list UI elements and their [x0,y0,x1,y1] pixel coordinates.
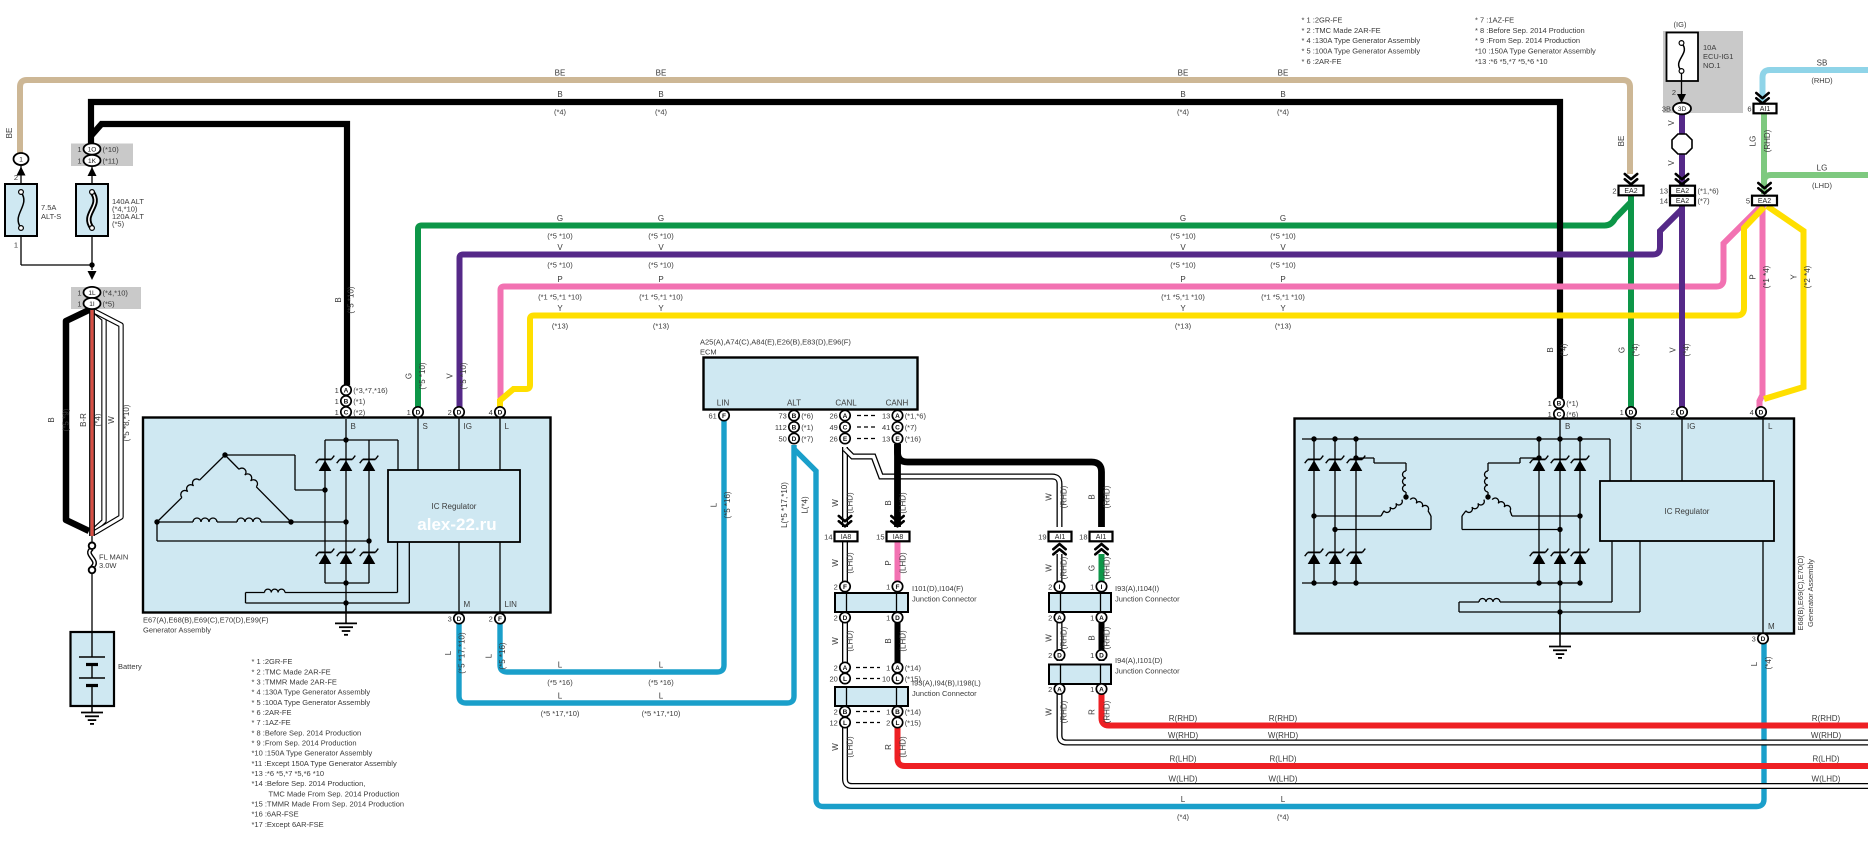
svg-text:LIN: LIN [717,399,730,408]
svg-text:I94(A),I101(D): I94(A),I101(D) [1115,656,1163,665]
svg-text:6: 6 [1747,104,1751,113]
right generator B column [1559,419,1561,634]
svg-text:(*4): (*4) [1560,343,1569,356]
svg-text:(*4): (*4) [1277,108,1290,117]
svg-text:L: L [710,502,719,507]
wire B-R red-black [89,308,95,536]
svg-text:Y: Y [1180,304,1186,313]
svg-text:3D: 3D [1678,106,1687,113]
svg-text:(*5 *10): (*5 *10) [648,261,674,270]
svg-text:1: 1 [1090,613,1094,622]
right generator diode columns [1313,439,1315,583]
svg-text:Junction Connector: Junction Connector [1115,595,1180,604]
svg-text:BE: BE [656,69,667,78]
svg-text:V: V [1180,243,1186,252]
svg-text:W: W [1045,493,1054,501]
svg-text:(*5 *10): (*5 *10) [1170,232,1196,241]
svg-text:Y: Y [1790,274,1799,280]
svg-text:D: D [498,409,503,416]
svg-text:Generator Assembly: Generator Assembly [143,626,211,635]
svg-text:2: 2 [489,614,493,623]
right generator diodes [1308,460,1321,471]
svg-text:(*16): (*16) [905,434,922,443]
svg-text:(*4,*10): (*4,*10) [103,288,129,297]
svg-text:5: 5 [1746,196,1750,205]
svg-text:(*5 *10): (*5 *10) [459,362,468,389]
svg-text:EA2: EA2 [1676,188,1689,195]
svg-text:12: 12 [829,718,837,727]
svg-text:1: 1 [1620,408,1624,417]
svg-text:2: 2 [1048,582,1052,591]
svg-text:BE: BE [1178,69,1189,78]
svg-text:D: D [416,409,421,416]
svg-text:1O: 1O [88,146,97,153]
svg-text:2: 2 [886,718,890,727]
svg-text:1: 1 [886,707,890,716]
svg-text:2: 2 [834,613,838,622]
svg-text:(*6): (*6) [1566,410,1579,419]
svg-text:1: 1 [407,408,411,417]
fuse F2 element [89,192,95,228]
battery ground [91,706,93,713]
right generator pin stubs [1630,417,1632,481]
svg-text:B: B [351,422,356,431]
svg-text:4: 4 [489,408,493,417]
wire P pink LHD IA8 to junction [895,542,901,582]
wire R red LHD [898,715,1868,766]
svg-text:26: 26 [829,434,837,443]
right generator field coil [1459,601,1479,603]
svg-text:B: B [1088,494,1097,499]
svg-text:W(RHD): W(RHD) [1811,731,1842,740]
gray strip connector 1L/1I [71,287,141,309]
svg-text:F: F [722,413,726,420]
svg-text:L: L [896,720,900,727]
svg-text:W: W [1045,708,1054,716]
svg-text:(*1 *5,*1 *10): (*1 *5,*1 *10) [1161,293,1205,302]
right generator star winding right [1485,494,1490,499]
svg-text:(RHD): (RHD) [1763,129,1772,152]
svg-text:(*5): (*5) [112,220,125,229]
svg-text:D: D [1759,409,1764,416]
svg-text:(*4): (*4) [94,413,103,426]
wire black bow left bundle [66,309,91,531]
svg-text:S: S [423,422,428,431]
svg-text:(*4): (*4) [1631,343,1640,356]
svg-text:2: 2 [448,408,452,417]
svg-text:(*5 *17,*10): (*5 *17,*10) [458,632,467,674]
svg-text:(*5 *16): (*5 *16) [547,678,573,687]
gray strip connector 1O/1K [71,144,133,167]
svg-text:B: B [792,413,797,420]
svg-text:P: P [557,275,562,284]
battery symbol [91,632,93,657]
svg-text:R(RHD): R(RHD) [1812,714,1841,723]
wire L cyan M-ALT [459,445,794,703]
svg-text:(*5 *10): (*5 *10) [648,232,674,241]
svg-text:*15 :TMMR Made From Sep. 2014: *15 :TMMR Made From Sep. 2014 Production [252,799,405,808]
svg-text:* 9 :From Sep. 2014 Production: * 9 :From Sep. 2014 Production [252,738,357,747]
svg-text:R(LHD): R(LHD) [1169,755,1196,764]
generator assembly left box [143,418,551,613]
svg-text:IC Regulator: IC Regulator [1665,507,1710,516]
svg-text:(*1,*6): (*1,*6) [905,411,927,420]
svg-text:112: 112 [775,423,787,432]
svg-text:B: B [1280,90,1285,99]
svg-text:13: 13 [1660,186,1668,195]
svg-text:(*11): (*11) [103,156,119,165]
svg-text:R(LHD): R(LHD) [1812,755,1839,764]
svg-text:L: L [843,676,847,683]
svg-text:(*5 *10): (*5 *10) [547,261,573,270]
svg-text:IA8: IA8 [893,534,904,541]
svg-text:(*3,*7,*16): (*3,*7,*16) [353,386,388,395]
svg-text:26: 26 [829,411,837,420]
svg-text:* 5 :100A Type Generator Assem: * 5 :100A Type Generator Assembly [1302,47,1421,56]
svg-text:(RHD): (RHD) [1060,626,1069,649]
svg-text:2: 2 [1672,88,1676,97]
svg-text:(*5 *10): (*5 *10) [418,362,427,389]
svg-text:1: 1 [77,156,81,165]
fuse output arrow ECU-IG1 [1677,94,1686,103]
svg-text:W: W [1045,634,1054,642]
svg-text:E: E [843,436,848,443]
svg-text:(*5 *10): (*5 *10) [547,232,573,241]
svg-text:I93(A),I104(I): I93(A),I104(I) [1115,584,1160,593]
svg-text:B: B [792,424,797,431]
junction connector box I101(D),I104(F) [835,593,908,612]
svg-text:1: 1 [77,299,81,308]
wire W white columns right [1057,554,1063,582]
connector 2 EA2 [1625,174,1637,179]
svg-text:W(RHD): W(RHD) [1268,731,1299,740]
svg-text:*13 :*6 *5,*7 *5,*6 *10: *13 :*6 *5,*7 *5,*6 *10 [1475,57,1548,66]
ECM CAN dashed links [857,415,877,417]
svg-text:(*4): (*4) [1277,813,1290,822]
svg-text:*10 :150A Type Generator Assem: *10 :150A Type Generator Assembly [1475,47,1596,56]
svg-text:19: 19 [1038,532,1046,541]
svg-text:* 2 :TMC Made 2AR-FE: * 2 :TMC Made 2AR-FE [252,667,331,676]
connector 13 EA2 [1676,174,1688,179]
svg-text:(*4): (*4) [1177,813,1190,822]
svg-text:B: B [884,500,893,505]
svg-text:D: D [1057,652,1062,659]
svg-text:W(LHD): W(LHD) [1169,775,1198,784]
svg-text:(LHD): (LHD) [846,736,855,758]
svg-text:D: D [843,615,848,622]
svg-text:Y: Y [658,304,664,313]
svg-text:13: 13 [882,434,890,443]
svg-text:V: V [1667,120,1676,126]
svg-text:3B: 3B [1662,105,1671,114]
svg-text:B: B [658,90,663,99]
svg-text:4: 4 [1750,408,1754,417]
svg-text:L(*4): L(*4) [801,496,810,514]
svg-text:15: 15 [876,532,884,541]
svg-text:(*5 *8,*10): (*5 *8,*10) [122,404,131,441]
svg-text:(*7): (*7) [905,423,918,432]
svg-text:A: A [344,387,349,394]
svg-text:B: B [557,90,562,99]
svg-text:W(RHD): W(RHD) [1168,731,1199,740]
junction connector dashed links [856,667,880,669]
svg-text:B: B [334,297,343,302]
svg-text:IA8: IA8 [841,534,852,541]
svg-text:B: B [884,638,893,643]
IC regulator right box [1600,481,1774,541]
svg-text:LG: LG [1749,136,1758,147]
svg-text:G: G [1088,565,1097,571]
svg-text:L: L [505,422,510,431]
svg-text:C: C [344,409,349,416]
svg-text:(RHD): (RHD) [1103,626,1112,649]
svg-text:*11 :Except 150A Type Generato: *11 :Except 150A Type Generator Assembly [252,759,397,768]
svg-text:W: W [831,559,840,567]
fuse box region (IG) gray background [1663,31,1743,113]
svg-text:(IG): (IG) [1674,20,1687,29]
junction connector box I93(A),I94(B),I198(L) [835,687,908,706]
svg-text:(*13): (*13) [1275,322,1292,331]
svg-text:CANL: CANL [835,399,857,408]
IC regulator left box [388,470,520,542]
svg-text:(LHD): (LHD) [899,492,908,514]
svg-text:M: M [1768,622,1775,631]
svg-text:BE: BE [5,128,14,139]
svg-text:D: D [1099,652,1104,659]
right generator internals - buses [1302,438,1610,440]
svg-text:V: V [1667,160,1676,166]
fuse ECU-IG1 element [1679,43,1685,71]
svg-text:*10 :150A Type Generator Assem: *10 :150A Type Generator Assembly [252,749,373,758]
svg-text:(*13): (*13) [1175,322,1192,331]
wire L cyan LIN [500,421,724,672]
svg-text:1: 1 [335,397,339,406]
connector 6 AI1 [1756,93,1768,98]
svg-text:(*13): (*13) [653,322,670,331]
wire W white staircase to AI1 [845,449,1060,527]
svg-text:L: L [659,692,664,701]
svg-text:3: 3 [448,614,452,623]
left generator ground [345,603,347,623]
svg-text:1I: 1I [89,301,95,308]
svg-text:A25(A),A74(C),A84(E),E26(B),E8: A25(A),A74(C),A84(E),E26(B),E83(D),E96(F… [700,338,851,347]
svg-text:AI1: AI1 [1055,534,1066,541]
svg-text:41: 41 [882,423,890,432]
svg-text:E68(B),E69(C),E70(D): E68(B),E69(C),E70(D) [1796,555,1805,631]
svg-text:TMC Made From Sep. 2014 Produc: TMC Made From Sep. 2014 Production [269,789,400,798]
svg-text:F: F [896,584,900,591]
svg-text:B: B [1546,347,1555,352]
wire B black CANH over whites [894,444,901,527]
svg-text:D: D [457,409,462,416]
svg-text:W: W [107,416,116,424]
svg-text:1: 1 [886,582,890,591]
svg-text:2: 2 [1048,613,1052,622]
svg-text:1: 1 [1090,582,1094,591]
svg-text:E67(A),E68(B),E69(C),E70(D),E9: E67(A),E68(B),E69(C),E70(D),E99(F) [143,616,269,625]
connector 3D [1673,103,1691,115]
svg-text:10A: 10A [1703,43,1716,52]
svg-text:(RHD): (RHD) [1103,556,1112,579]
wire W white CANL vertical [842,447,848,527]
svg-text:C: C [895,424,900,431]
svg-text:L: L [1181,795,1186,804]
svg-text:* 1 :2GR-FE: * 1 :2GR-FE [1302,16,1343,25]
junction connector box I94(A),I101(D) [1049,665,1111,685]
svg-text:I: I [1101,584,1103,591]
left generator field coil [246,592,265,594]
svg-text:L(*5 *17,*10): L(*5 *17,*10) [780,482,789,528]
svg-text:G: G [557,214,563,223]
svg-text:(LHD): (LHD) [846,630,855,652]
svg-text:(RHD): (RHD) [1060,556,1069,579]
svg-text:V: V [446,373,455,379]
svg-text:B: B [1565,422,1570,431]
svg-text:(RHD): (RHD) [1103,485,1112,508]
svg-text:D: D [792,436,797,443]
left generator phase tap wires [225,454,295,456]
svg-text:F: F [498,616,502,623]
svg-text:A: A [843,665,848,672]
svg-text:*14 :Before Sep. 2014 Producti: *14 :Before Sep. 2014 Production, [252,779,366,788]
svg-text:* 4 :130A Type Generator Assem: * 4 :130A Type Generator Assembly [1302,36,1421,45]
svg-text:1: 1 [77,145,81,154]
svg-text:C: C [1557,411,1562,418]
svg-text:(RHD): (RHD) [1060,485,1069,508]
svg-text:13: 13 [882,411,890,420]
svg-text:ECM: ECM [700,348,717,357]
svg-text:(*2): (*2) [353,408,366,417]
svg-text:B: B [1557,400,1562,407]
svg-text:AI1: AI1 [1096,534,1107,541]
svg-text:E: E [895,436,900,443]
svg-text:(*13): (*13) [552,322,569,331]
svg-text:W: W [831,743,840,751]
svg-text:A: A [1057,615,1062,622]
svg-text:G: G [658,214,664,223]
svg-text:(*5): (*5) [103,299,116,308]
svg-text:R: R [884,744,893,750]
generator assembly right box [1295,419,1795,634]
wire P pink horizontal from EA2 [501,206,1762,399]
svg-text:R(LHD): R(LHD) [1269,755,1296,764]
svg-text:18: 18 [1079,532,1087,541]
svg-text:Junction Connector: Junction Connector [912,689,977,698]
svg-text:(*5 *10): (*5 *10) [1270,232,1296,241]
svg-text:F: F [843,584,847,591]
svg-text:M: M [464,600,471,609]
svg-text:* 6 :2AR-FE: * 6 :2AR-FE [1302,57,1342,66]
svg-text:(*7): (*7) [1698,196,1711,205]
wire Y yellow right elbow [1764,206,1804,399]
left generator diodes [319,460,332,471]
svg-text:2: 2 [1612,186,1616,195]
svg-text:L: L [558,692,563,701]
svg-text:A: A [1099,686,1104,693]
svg-text:W(LHD): W(LHD) [1812,775,1841,784]
svg-text:V: V [557,243,563,252]
svg-text:(*2 *4): (*2 *4) [1803,265,1812,288]
svg-text:* 6 :2AR-FE: * 6 :2AR-FE [252,708,292,717]
svg-text:BE: BE [1278,69,1289,78]
svg-text:NO.1: NO.1 [1703,61,1721,70]
fuse F2 140A ALT box [76,184,108,236]
svg-text:(*5 *16): (*5 *16) [723,491,732,518]
svg-text:(RHD): (RHD) [1103,700,1112,723]
svg-text:V: V [658,243,664,252]
svg-text:* 8 :Before Sep. 2014 Producti: * 8 :Before Sep. 2014 Production [252,728,362,737]
svg-text:IC Regulator: IC Regulator [432,502,477,511]
svg-text:AI1: AI1 [1760,106,1771,113]
svg-text:EA2: EA2 [1676,198,1689,205]
svg-text:L: L [1750,661,1759,666]
svg-text:CANH: CANH [886,399,909,408]
svg-text:1: 1 [335,386,339,395]
svg-text:(LHD): (LHD) [899,736,908,758]
svg-text:20: 20 [829,674,837,683]
svg-text:1: 1 [19,156,23,163]
svg-text:EA2: EA2 [1758,198,1771,205]
svg-text:2: 2 [834,663,838,672]
svg-text:2: 2 [1671,408,1675,417]
svg-text:1: 1 [1548,410,1552,419]
right generator star winding left [1403,494,1408,499]
svg-text:73: 73 [778,411,786,420]
wire SB light blue [1763,70,1868,103]
connector 15 IA8 [891,516,903,521]
wire G green RHD below AI1 [1099,554,1105,582]
svg-text:B: B [344,398,349,405]
svg-text:(*1 *5,*1 *10): (*1 *5,*1 *10) [538,293,582,302]
svg-text:(*4): (*4) [554,108,567,117]
svg-text:Battery: Battery [118,662,142,671]
svg-text:A: A [895,665,900,672]
svg-text:ALT: ALT [787,399,801,408]
svg-text:(*1 *5,*1 *10): (*1 *5,*1 *10) [1261,293,1305,302]
svg-text:G: G [1280,214,1286,223]
svg-text:1: 1 [886,663,890,672]
svg-text:(*5 *9): (*5 *9) [62,408,71,431]
svg-text:IG: IG [464,422,472,431]
svg-text:50: 50 [778,434,786,443]
right generator ground [1559,612,1561,647]
svg-text:(*14): (*14) [905,707,922,716]
svg-text:LG: LG [1817,164,1828,173]
left generator delta winding [157,497,182,522]
wire black B branch to left generator [91,124,347,385]
svg-text:*13 :*6 *5,*7 *5,*6 *10: *13 :*6 *5,*7 *5,*6 *10 [252,769,325,778]
svg-text:V: V [1280,243,1286,252]
svg-text:3: 3 [1752,634,1756,643]
svg-text:B: B [1088,635,1097,640]
svg-text:10: 10 [882,674,890,683]
svg-text:(LHD): (LHD) [899,552,908,574]
svg-text:B: B [895,709,900,716]
svg-text:Junction Connector: Junction Connector [1115,667,1180,676]
junction connector box I93(A),I104(I) [1049,593,1111,612]
svg-text:*17 :Except 6AR-FSE: *17 :Except 6AR-FSE [252,820,324,829]
svg-text:I101(D),I104(F): I101(D),I104(F) [912,584,964,593]
connector 5 EA2 [1758,183,1770,188]
svg-text:W: W [1045,564,1054,572]
wire black segments junction columns [895,620,901,684]
connector 14 IA8 [839,516,851,521]
wire V purple branch horizontal [460,209,1683,407]
svg-text:R(RHD): R(RHD) [1269,714,1298,723]
svg-text:1K: 1K [88,158,97,165]
svg-text:7.5A: 7.5A [41,203,56,212]
svg-text:D: D [1761,636,1766,643]
